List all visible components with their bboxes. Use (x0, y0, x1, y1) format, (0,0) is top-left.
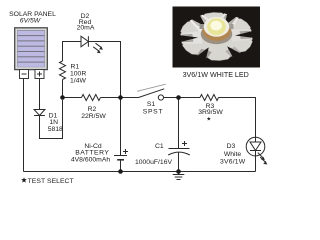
svg-text:R2: R2 (88, 106, 97, 113)
capacitor C1 (168, 141, 190, 155)
svg-text:D3: D3 (227, 143, 236, 150)
white package ring (204, 17, 230, 37)
bottom rail wire (24, 171, 256, 173)
LED D2 (81, 36, 103, 53)
wire R2 to node B (101, 97, 121, 99)
diode D1 (34, 110, 45, 116)
svg-text:C1: C1 (155, 143, 164, 150)
stray pencil mark (137, 84, 166, 91)
amber ring (202, 18, 231, 41)
wire D2 cathode right and down to node B (88, 42, 120, 98)
solar panel minus terminal (20, 70, 29, 79)
battery B1 plates (114, 149, 128, 161)
wire D3 to bottom rail (255, 156, 257, 172)
svg-text:R1: R1 (71, 64, 80, 71)
svg-text:100R: 100R (70, 71, 86, 78)
battery wire from node B down (120, 98, 122, 156)
svg-text:1/4W: 1/4W (70, 78, 86, 85)
svg-text:20mA: 20mA (77, 25, 95, 32)
svg-text:22R/5W: 22R/5W (81, 113, 106, 120)
solar panel PV1 (15, 28, 48, 70)
shadow under package (201, 24, 233, 44)
wire from D1 cathode down and right to node A (40, 100, 63, 139)
capacitor C1 wire to bottom rail (178, 152, 180, 171)
LED photo (173, 7, 261, 68)
asterisk star for TEST SELECT (21, 177, 27, 182)
node dot A at R1/R2/D1 junction (60, 95, 65, 100)
star PCB tab pads (180, 14, 253, 60)
svg-text:5818: 5818 (48, 126, 63, 133)
svg-text:S1: S1 (147, 101, 156, 108)
ground symbol (173, 172, 185, 180)
svg-text:3V6/1W WHITE LED: 3V6/1W WHITE LED (183, 71, 249, 79)
wire node C to R3 (179, 97, 201, 99)
svg-text:3R9/5W: 3R9/5W (198, 109, 223, 116)
star PCB lighter arms (188, 14, 215, 32)
battery wire to bottom rail (120, 160, 122, 172)
wire node B to switch (121, 97, 139, 99)
wire node A to R2 (63, 97, 82, 99)
yellow phosphor dome (207, 18, 226, 35)
asterisk star for R3 (207, 117, 211, 121)
star PCB (175, 10, 257, 62)
solar panel plus terminal (35, 70, 44, 79)
svg-text:6V/5W: 6V/5W (20, 18, 41, 25)
wire R1 bottom to node A (62, 80, 64, 98)
svg-text:TEST SELECT: TEST SELECT (28, 178, 74, 185)
node dot battery bottom (118, 169, 123, 174)
svg-text:White: White (224, 151, 242, 158)
svg-text:3V6/1W: 3V6/1W (220, 158, 246, 165)
node dot C at S1/C1/R3 junction (176, 95, 181, 100)
package side electrodes (200, 24, 205, 29)
resistor R1 (60, 61, 66, 80)
wire R1 top up and right to D2 (63, 42, 82, 62)
svg-text:SPST: SPST (143, 109, 164, 116)
wire from plus terminal down to D1 (39, 79, 41, 110)
wire R3 right and down to D3 (219, 98, 256, 138)
resistor R3 (200, 95, 219, 101)
capacitor C1 wire from node C down (178, 98, 180, 149)
resistor R2 (82, 95, 101, 101)
wire left rail from minus terminal down to bottom rail (23, 79, 25, 172)
svg-text:4V8/600mAh: 4V8/600mAh (71, 157, 111, 164)
switch S1 lever (139, 89, 165, 100)
wire switch to node C (164, 97, 179, 99)
node dot B at R2/D2/battery junction (118, 95, 123, 100)
star PCB notch cuts (223, 12, 239, 26)
svg-text:1000uF/16V: 1000uF/16V (135, 159, 173, 166)
LED D3 (246, 137, 267, 164)
node dot C1 bottom (176, 169, 181, 174)
